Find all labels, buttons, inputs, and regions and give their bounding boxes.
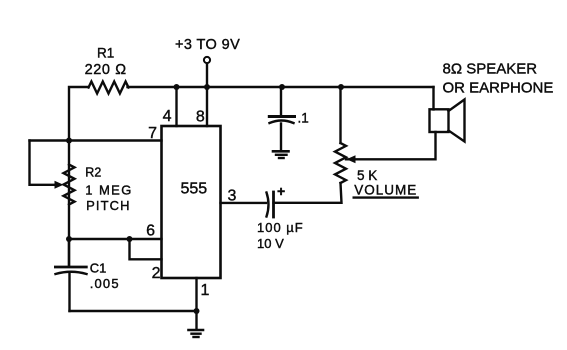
svg-text:1 MEG: 1 MEG — [85, 182, 132, 197]
svg-text:1: 1 — [201, 282, 210, 299]
svg-text:4: 4 — [163, 108, 172, 125]
svg-text:10 V: 10 V — [257, 236, 284, 251]
svg-text:100 µF: 100 µF — [257, 220, 304, 235]
svg-text:+3 TO 9V: +3 TO 9V — [175, 37, 240, 53]
svg-text:.005: .005 — [90, 276, 120, 291]
svg-text:555: 555 — [181, 181, 208, 198]
svg-text:C1: C1 — [90, 261, 107, 276]
svg-text:8Ω SPEAKER: 8Ω SPEAKER — [443, 61, 538, 78]
svg-text:6: 6 — [146, 223, 155, 240]
svg-text:.1: .1 — [298, 111, 309, 126]
svg-text:OR EARPHONE: OR EARPHONE — [443, 80, 554, 97]
svg-text:7: 7 — [148, 125, 157, 142]
svg-text:5 K: 5 K — [357, 168, 377, 183]
svg-text:220 Ω: 220 Ω — [85, 62, 127, 78]
svg-text:PITCH: PITCH — [86, 198, 131, 213]
svg-text:3: 3 — [228, 188, 237, 205]
svg-text:R2: R2 — [85, 165, 101, 179]
svg-text:R1: R1 — [97, 46, 114, 61]
svg-text:8: 8 — [196, 108, 205, 125]
svg-text:+: + — [277, 183, 285, 199]
svg-text:2: 2 — [152, 265, 161, 282]
svg-text:VOLUME: VOLUME — [354, 182, 417, 197]
